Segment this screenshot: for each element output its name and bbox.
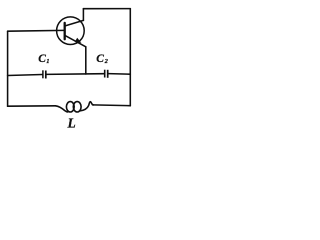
wire top-left horizontal (base lead) (8, 29, 64, 32)
inductor L first loop (66, 102, 74, 112)
transistor emitter arrowhead (75, 38, 82, 43)
wire bottom-right horizontal (93, 104, 131, 107)
wire right vertical (129, 9, 131, 106)
wire top horizontal (83, 8, 130, 10)
svg-text:C: C (96, 53, 104, 65)
capacitor C2 (105, 70, 108, 78)
svg-text:1: 1 (46, 58, 49, 65)
transistor Q1 base bar (64, 23, 66, 39)
inductor L second loop (73, 102, 81, 112)
transistor Q1 (57, 17, 86, 47)
inductor L entry dip (56, 106, 68, 112)
transistor Q1 envelope circle (57, 17, 85, 45)
svg-text:C: C (38, 53, 46, 65)
inductor L (56, 102, 94, 112)
transistor Q1 emitter lead (65, 35, 86, 47)
wire collector vertical rise (82, 9, 84, 21)
wire emitter vertical drop (85, 47, 87, 74)
wire left vertical (7, 31, 9, 106)
capacitor C1 right plate (45, 71, 47, 79)
capacitor C2 left plate (104, 70, 106, 78)
wire mid horizontal centre (C1 to C2, emitter junction) (46, 73, 104, 76)
capacitor C2 right plate (107, 70, 109, 78)
capacitor C1 left plate (42, 70, 44, 78)
svg-text:L: L (67, 116, 76, 131)
svg-text:2: 2 (104, 58, 109, 65)
transistor Q1 collector lead (65, 20, 84, 26)
capacitor C1 (43, 70, 46, 78)
wire mid horizontal right (C2 to right rail) (109, 73, 131, 76)
inductor L exit curl (80, 102, 93, 111)
wire bottom-left horizontal (8, 105, 56, 107)
wire mid horizontal left (to C1) (8, 75, 43, 76)
